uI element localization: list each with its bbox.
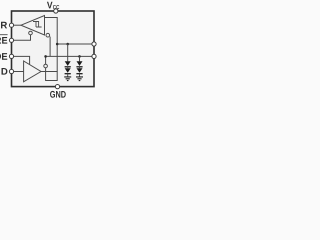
- wire receiver input B: [49, 37, 51, 57]
- ground chain 2: [76, 77, 83, 81]
- diode D4: [77, 68, 83, 73]
- wire DE enable: [12, 56, 30, 64]
- wire R output: [12, 24, 22, 26]
- wire B line: [46, 55, 94, 57]
- wire to ground: [67, 66, 69, 68]
- bubble RE: [29, 31, 33, 35]
- wire to ground: [79, 66, 81, 68]
- wire RE enable: [12, 35, 31, 40]
- terminal B: [92, 54, 96, 58]
- hysteresis symbol: [33, 22, 42, 28]
- driver output stage block: [46, 72, 58, 81]
- diode D3: [77, 61, 83, 66]
- diode D2: [65, 68, 71, 73]
- terminal D: [9, 69, 13, 73]
- wire A line: [57, 44, 94, 72]
- bubble driver inverted output: [44, 64, 48, 68]
- svg-text:R: R: [0, 20, 7, 31]
- svg-text:GND: GND: [50, 90, 66, 100]
- wire inverted output stem: [45, 56, 47, 71]
- wire driver output: [41, 71, 46, 73]
- op-amp U2 driver: [24, 61, 41, 82]
- op-amp U1 receiver: [21, 16, 45, 36]
- node B junction: [44, 55, 47, 58]
- node diode chain 1 tap: [66, 43, 69, 46]
- svg-text:D: D: [1, 67, 8, 78]
- terminal VCC: [54, 9, 58, 13]
- diode D1: [65, 61, 71, 66]
- ground chain 1: [64, 77, 71, 81]
- svg-text:RE: RE: [0, 36, 8, 47]
- background: [0, 0, 100, 100]
- terminal A: [92, 42, 96, 46]
- terminal GND: [55, 85, 59, 89]
- wire chain 2: [79, 56, 81, 61]
- bubble receiver input B: [46, 33, 50, 37]
- node diode chain 2 tap: [78, 55, 81, 58]
- terminal DE: [9, 54, 13, 58]
- wire receiver input A: [45, 18, 58, 45]
- wire chain 1: [67, 44, 69, 61]
- IC package box: [12, 11, 95, 87]
- terminal RE: [9, 38, 13, 42]
- svg-text:CC: CC: [53, 5, 60, 11]
- wire D input: [12, 71, 24, 73]
- node A junction: [56, 43, 59, 46]
- svg-text:DE: DE: [0, 52, 8, 63]
- terminal R: [9, 23, 13, 27]
